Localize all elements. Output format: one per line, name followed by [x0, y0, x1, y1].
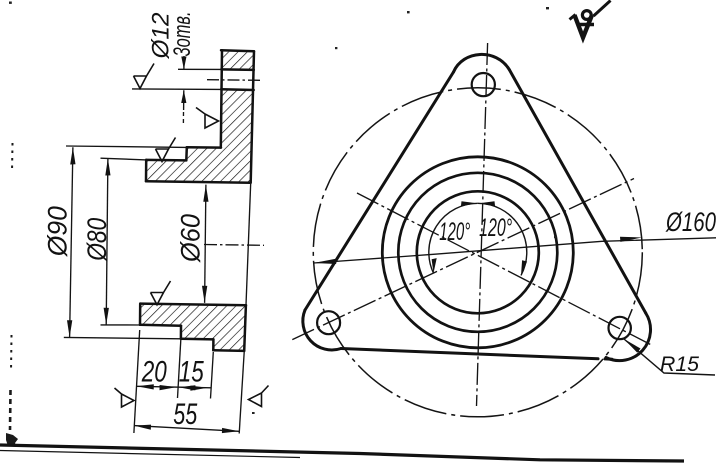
O60 arrow down [202, 286, 207, 303]
radial centerline to lower-right bolt [357, 193, 652, 345]
thin lines: extensions, dims [64, 56, 264, 434]
svg-text:Ø80: Ø80 [82, 218, 112, 262]
right 120 arc [478, 203, 527, 275]
mark left of 55 [115, 388, 135, 407]
15 arrow left [179, 385, 196, 390]
ring top edge [187, 146, 221, 149]
dim line O80 [106, 158, 108, 325]
mark on bore bottom [151, 281, 171, 305]
O160 diameter dimension line [314, 238, 716, 263]
120 deg arcs [429, 203, 527, 275]
mark on hub top [156, 138, 176, 162]
svg-text:R15: R15 [660, 353, 699, 376]
lower-right bolt hole [609, 317, 631, 339]
dim line O90 [70, 147, 73, 337]
20 arrow right [160, 385, 177, 390]
arrows left view [67, 57, 239, 434]
O60 arrow up [203, 185, 208, 202]
dim line O60 [205, 185, 206, 303]
ext 15 right [211, 352, 214, 399]
mark on plate left edge [196, 108, 219, 129]
hub circle [398, 173, 557, 332]
55 arrow right [222, 428, 239, 433]
O12 arrow down [181, 57, 186, 70]
plate bottom edge [213, 349, 244, 352]
bore top edge [146, 181, 251, 183]
O160 dim left arrow [314, 259, 337, 264]
bottom side [341, 349, 598, 359]
15 arrow right [190, 386, 207, 391]
corner roughness symbol [570, 1, 611, 38]
hub bottom edge [140, 324, 181, 327]
dim line O12 lower [183, 90, 185, 110]
top corner lobe [454, 54, 510, 72]
R15 leader [624, 339, 715, 375]
ext 55 right lower [239, 352, 244, 434]
right arc top arrow [479, 201, 495, 206]
bolt hole axis dash-dot [207, 79, 262, 82]
svg-text:15: 15 [179, 356, 204, 389]
part axis dash-dot [204, 244, 264, 247]
speckles [9, 2, 557, 415]
plate right edge lower [244, 305, 246, 351]
vertical centerline [477, 43, 488, 406]
left arc bottom arrow [432, 258, 437, 273]
bolt circle O160 dash-dot [313, 88, 642, 417]
step lower 1 [180, 326, 183, 339]
O90 arrow up [70, 147, 75, 164]
leader hole bottom [132, 88, 221, 91]
20 arrow left [137, 384, 154, 389]
lower-left corner lobe [303, 310, 341, 350]
ring circle [382, 157, 573, 348]
hub left face lower [139, 304, 142, 325]
svg-text:Ø60: Ø60 [175, 214, 205, 263]
55 arrow left [134, 425, 151, 430]
lower-left bolt hole [317, 311, 340, 334]
left 120 arc [429, 203, 478, 273]
plate left edge [221, 50, 222, 147]
top bolt hole [472, 73, 495, 96]
left side [305, 72, 454, 310]
O80 arrow up [105, 158, 110, 175]
mark right of 55 [249, 386, 269, 407]
bore bottom edge [140, 304, 246, 306]
O12 arrow up [181, 90, 186, 103]
O80 arrow down [104, 308, 109, 325]
bottom border line [0, 445, 684, 461]
bottom side dash [605, 357, 612, 360]
R15 arrow [624, 339, 641, 353]
bore circle [417, 191, 539, 313]
mark on hole leader [134, 64, 155, 89]
plate top edge [221, 50, 254, 51]
ring step [185, 147, 188, 160]
dim line 20 15 [137, 386, 212, 388]
bolt hole upper line [221, 68, 254, 71]
svg-text:120°: 120° [439, 218, 470, 246]
dim line 55 [134, 426, 239, 432]
svg-text:55: 55 [173, 398, 197, 431]
hatch sliver above bolt hole [221, 52, 254, 70]
plate right edge [251, 51, 254, 182]
svg-text:120°: 120° [479, 214, 512, 242]
page edge blob [6, 433, 18, 447]
left arc top arrow [461, 201, 477, 206]
labels left view [43, 12, 206, 432]
ext O90 bottom [64, 337, 181, 338]
ext hole top [178, 68, 221, 70]
arc arrows [432, 201, 527, 275]
ext O90 top [66, 146, 187, 147]
right side [509, 70, 645, 313]
right arc bottom arrow [521, 260, 527, 275]
lower-right corner lobe [606, 313, 651, 361]
section outline [140, 50, 254, 351]
hub top edge [146, 159, 186, 162]
ext O80 bottom [101, 324, 141, 326]
hub left face upper [145, 160, 148, 181]
ext O80 top [101, 158, 147, 160]
ext 20 left / 55 left [134, 330, 140, 433]
ext 20 right [178, 340, 181, 398]
dim line O12 upper [183, 56, 185, 69]
ring bottom edge [181, 338, 214, 341]
roughness marks left view [115, 64, 269, 408]
svg-text:20: 20 [141, 356, 167, 389]
radial centerline to lower-left bolt [292, 179, 634, 340]
bolt hole lower line [221, 88, 254, 91]
ext 55 right through bore [246, 183, 251, 305]
svg-text:3отв.: 3отв. [169, 12, 196, 57]
bottom border shadow line [0, 451, 300, 458]
hatch top band [146, 90, 253, 183]
step lower 2 [212, 339, 215, 350]
O160 dim right arrow [620, 237, 642, 242]
svg-text:Ø90: Ø90 [43, 206, 73, 257]
page left edge dotted [10, 143, 13, 430]
svg-text:Ø160: Ø160 [665, 207, 716, 237]
O90 arrow down [67, 320, 72, 337]
hatch bottom band [140, 304, 246, 351]
triangle outline [303, 54, 651, 360]
